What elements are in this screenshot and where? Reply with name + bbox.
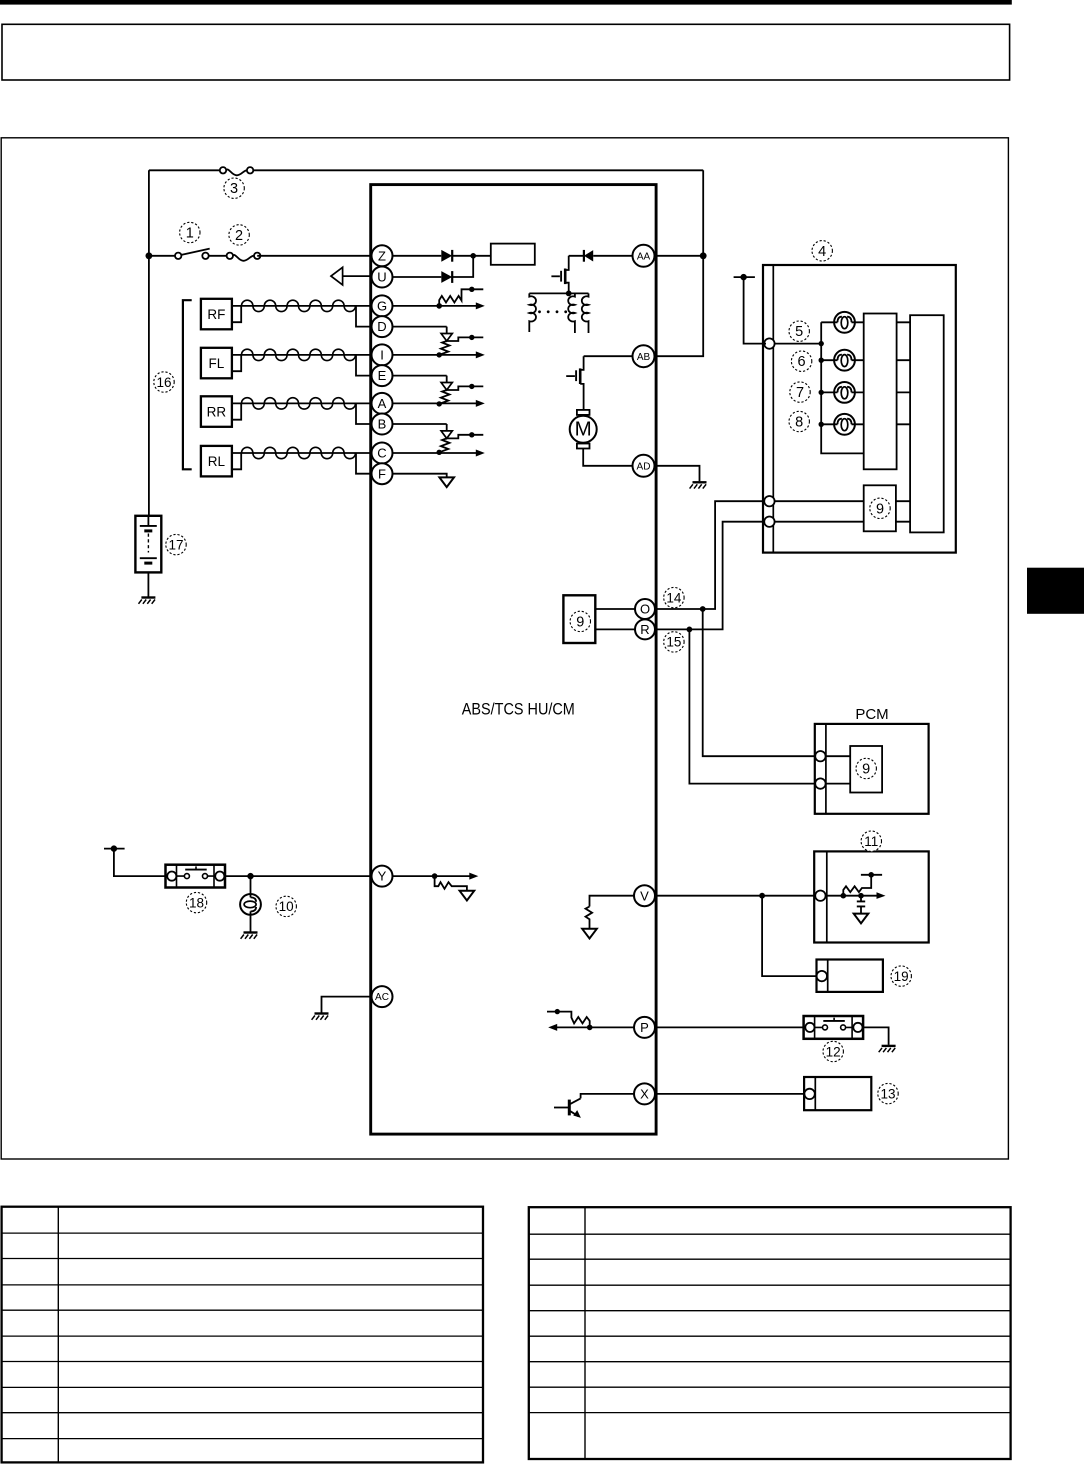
wire pin I internal with signal arrow [393, 351, 485, 358]
sensor 11 internal wire with arrow [826, 892, 886, 899]
junction Q1 source / solenoid rail [566, 291, 572, 297]
coupling dots [538, 310, 567, 313]
wire pin E to zener branch [393, 375, 447, 377]
svg-text:B: B [378, 417, 387, 432]
junction R / PCM branch [687, 627, 693, 633]
ground (12) [879, 1046, 896, 1052]
wires box 9 to micro [896, 501, 910, 522]
solenoid coil L2 [568, 293, 575, 333]
svg-text:U: U [377, 270, 386, 285]
label 1 [180, 222, 200, 242]
diode D3 to pin AA [569, 250, 634, 262]
wire split to pin E [356, 355, 372, 376]
junction P pull-up [587, 1025, 593, 1031]
label 14 [664, 587, 684, 607]
svg-text:A: A [378, 396, 387, 411]
wheel speed sensor RF [201, 299, 241, 330]
pin AB [633, 345, 655, 367]
pin Y [372, 866, 393, 887]
label 18 [186, 892, 206, 912]
svg-text:8: 8 [795, 415, 803, 431]
PCM pin circles [815, 751, 825, 761]
MOSFET Q2 [576, 356, 584, 410]
meter internal supply bus [775, 322, 864, 453]
wire battery to ground [147, 572, 149, 596]
pin P [634, 1017, 655, 1038]
wire motor to pin AD [583, 449, 633, 466]
wire pin V to sensor 11 [656, 895, 817, 897]
label 13 [878, 1083, 898, 1103]
label 4 [812, 241, 832, 261]
wheel speed sensor RL [201, 446, 241, 477]
meter pin circles [764, 338, 774, 348]
svg-text:FL: FL [209, 356, 225, 371]
svg-text:AC: AC [375, 992, 389, 1003]
ABS/TCS HU/CM control module box U? [371, 185, 656, 1135]
junction O / PCM branch [700, 606, 706, 612]
label 6 [791, 351, 811, 371]
warning lamp 5 [821, 312, 864, 333]
data link box 9 in meter [864, 485, 896, 531]
svg-text:RL: RL [208, 454, 226, 469]
buzzer lamp 10 [240, 894, 261, 915]
label 17 [166, 534, 186, 554]
MOSFET Q1 [561, 256, 569, 294]
connector 13 box [804, 1077, 871, 1110]
label 5 [789, 321, 809, 341]
wire V branch to connector 19 [762, 896, 817, 976]
svg-text:12: 12 [826, 1044, 841, 1059]
svg-text:E: E [378, 368, 387, 383]
svg-text:M: M [575, 417, 592, 440]
wheel speed sensor RR [201, 396, 241, 427]
off-page supply tap (18) [104, 845, 125, 851]
pin C [372, 443, 393, 464]
stoplight switch 18 [166, 865, 226, 888]
label 16 [154, 372, 174, 392]
svg-text:RR: RR [207, 405, 227, 420]
combination meter box 4 [763, 265, 956, 553]
wire pin Y to stop switch 18 [225, 875, 372, 877]
svg-text:R: R [640, 622, 649, 637]
junction Y pull-down [432, 873, 438, 879]
connector 19 pin circle [817, 971, 827, 981]
junction Z/U diodes [470, 253, 476, 259]
wire meter supply to off-page tap [744, 277, 766, 344]
svg-text:Y: Y [378, 869, 387, 884]
svg-text:X: X [640, 1087, 649, 1102]
right rail wire from top feed to pin AB [645, 170, 703, 356]
internal relay coil box [491, 244, 535, 265]
wire switch 1 to fuse 2 [209, 255, 227, 257]
wire fuse 3 to right rail [250, 169, 703, 171]
transistor Q3 (pin X driver) [554, 1098, 581, 1118]
label 10 [276, 896, 296, 916]
svg-text:V: V [640, 888, 649, 903]
label 11 [861, 831, 881, 851]
svg-text:10: 10 [279, 899, 294, 914]
zener + resistor B to C node [437, 424, 484, 455]
pin I [372, 344, 393, 365]
pin U [372, 267, 393, 288]
battery 17 [135, 516, 161, 573]
wires lamp driver to micro [897, 322, 911, 424]
wire pin B to zener branch [393, 423, 447, 425]
svg-text:AD: AD [637, 461, 651, 472]
wire pin O to combination meter [645, 501, 766, 609]
svg-text:15: 15 [666, 635, 681, 650]
svg-text:F: F [378, 466, 386, 481]
wire pin A internal with signal arrow [393, 400, 485, 407]
pin X [634, 1083, 655, 1104]
label 8 [789, 411, 809, 431]
label 9 (O/R box) [570, 611, 590, 631]
sensor 11 pin circle [815, 891, 825, 901]
svg-text:RF: RF [207, 307, 225, 322]
twisted pair RF [241, 305, 371, 307]
svg-text:C: C [377, 446, 386, 461]
label 9 (meter box) [870, 498, 890, 518]
svg-text:D: D [377, 319, 386, 334]
pin G [372, 295, 393, 316]
page top black bar [0, 0, 1012, 5]
pin O [635, 599, 655, 619]
pin Z [372, 245, 393, 266]
junction Y / buzzer branch [247, 873, 253, 879]
pin F [372, 463, 393, 484]
svg-text:O: O [640, 602, 650, 617]
off-page arrow at pin U [331, 267, 372, 285]
bottom-left legend table [2, 1207, 483, 1463]
svg-text:11: 11 [864, 834, 878, 849]
warning lamp 8 [819, 414, 864, 435]
junction bus / supply in [819, 341, 824, 346]
wire pin Z to diode [393, 255, 442, 257]
meter micro block [910, 315, 944, 532]
pump motor M [570, 410, 597, 449]
resistor P pull-up to supply tap [547, 1009, 590, 1028]
page edge index tab [1027, 568, 1084, 614]
data link box 9 at O/R [563, 595, 595, 643]
wire box 9 to pin R [595, 628, 635, 630]
svg-text:14: 14 [666, 590, 682, 605]
wire pin AD to ground [645, 466, 700, 482]
bottom-right legend table [529, 1207, 1011, 1459]
MOSFET Q1 gate lead [551, 275, 560, 277]
fuse 3 fusible link [220, 167, 254, 175]
junction 11 internal b [858, 893, 864, 899]
svg-text:ABS/TCS HU/CM: ABS/TCS HU/CM [462, 701, 575, 719]
pin AA [633, 245, 655, 267]
svg-text:I: I [380, 348, 384, 363]
wire battery+ top feed to fuse 3 [149, 169, 223, 171]
solenoid valve rail wire [529, 292, 588, 294]
wire switch 12 to ground [863, 1027, 889, 1045]
pin E [372, 365, 393, 386]
wire fuse 2 to pin Z [257, 255, 371, 257]
pin R [635, 619, 655, 639]
svg-text:7: 7 [796, 385, 804, 401]
wire pin F to signal ground [393, 474, 447, 478]
warning lamp 7 [819, 382, 864, 403]
resistor V internal [586, 907, 593, 929]
wire pin AC to ground [322, 997, 372, 1013]
PCM internal wires [826, 756, 851, 783]
G sensor 11 box [814, 851, 929, 942]
wire pin R to combination meter [645, 522, 766, 630]
wire box 9 to pin O [595, 608, 635, 610]
solenoid coil L1 [529, 293, 536, 332]
wire pin X to connector 13 [656, 1093, 807, 1095]
wire pin G internal with signal arrow [393, 302, 485, 309]
label 15 [664, 632, 684, 652]
ground (battery) [139, 598, 156, 604]
MOSFET Q2 gate lead [566, 375, 575, 377]
svg-text:AA: AA [637, 251, 651, 262]
wheel speed sensor FL [201, 348, 241, 379]
signal ground triangle (V) [582, 929, 597, 939]
connector 13 pin circle [804, 1089, 814, 1099]
diode D1 (pin Z feed) [441, 250, 452, 262]
signal ground triangle (11) [854, 914, 869, 924]
wire R branch to PCM [689, 629, 816, 783]
wire to buzzer 10 [250, 876, 252, 894]
TCS switch 12 [804, 1016, 864, 1039]
data link box 9 in PCM [850, 746, 882, 793]
svg-text:G: G [377, 299, 387, 314]
bracket for item 16 wheel sensors [183, 300, 192, 469]
wire pin D to zener branch [393, 326, 447, 328]
resistor G pull-up to supply tap [439, 287, 483, 306]
wire buzzer 10 to ground [250, 915, 252, 932]
wire to switch 1 [149, 255, 175, 257]
label 2 [229, 225, 249, 245]
svg-text:18: 18 [189, 895, 204, 910]
diode D2 (pin U feed) [441, 271, 452, 283]
wire diode to internal box [452, 255, 491, 257]
wires meter data pins to box 9 [775, 501, 864, 522]
svg-text:16: 16 [156, 375, 171, 390]
wire switch 18 to off-page tap [114, 849, 166, 877]
pin A [372, 393, 393, 414]
twisted pair RL [241, 452, 371, 454]
PCM box [815, 706, 929, 814]
svg-text:AB: AB [637, 352, 651, 363]
wire split to pin F [356, 453, 372, 474]
wire U diode up to Z node [452, 256, 473, 277]
label 3 [224, 178, 244, 198]
svg-text:19: 19 [894, 969, 909, 984]
junction AA / right rail [700, 252, 707, 259]
svg-text:3: 3 [230, 181, 238, 197]
wire pin P to switch 12 [656, 1026, 806, 1028]
label 7 [790, 382, 810, 402]
pin V [634, 885, 655, 906]
signal ground triangle (Y) [460, 891, 475, 901]
page title box (empty) [2, 24, 1010, 80]
svg-text:PCM: PCM [855, 706, 888, 723]
wire pin P internal with signal arrow [548, 1024, 633, 1031]
svg-text:5: 5 [795, 324, 803, 340]
resistor 11 to supply tap [843, 872, 882, 896]
signal ground triangle (pin F) [439, 477, 454, 487]
meter lamp driver block [864, 314, 897, 470]
twisted pair FL [241, 354, 371, 356]
warning lamp 6 [819, 350, 864, 371]
switch 1 (ignition switch, open) [175, 249, 210, 259]
wire Q2 drain to pin AB [584, 355, 634, 357]
off-page supply tap [734, 274, 755, 280]
svg-text:9: 9 [576, 614, 584, 630]
ground (10) [241, 933, 258, 939]
pin D [372, 316, 393, 337]
svg-text:P: P [640, 1020, 649, 1035]
svg-text:17: 17 [168, 537, 183, 552]
svg-text:6: 6 [798, 354, 806, 370]
junction battery rail / switch row [146, 252, 153, 259]
pin B [372, 414, 393, 435]
label 19 [891, 966, 911, 986]
ground (AD) [690, 482, 707, 488]
svg-text:2: 2 [235, 228, 243, 244]
junction G pull-up [436, 303, 442, 309]
wire left rail battery to switch row [148, 170, 150, 516]
wire split to pin B [356, 403, 372, 424]
junction 11 internal a [841, 893, 847, 899]
fuse 2 [227, 253, 261, 261]
wire pin X internal [581, 1094, 634, 1099]
svg-text:9: 9 [862, 762, 870, 778]
pin AC [372, 986, 393, 1007]
resistor Y to signal ground [435, 876, 467, 891]
wire pin AA to right rail [645, 255, 703, 257]
svg-text:9: 9 [876, 501, 884, 517]
twisted pair RR [241, 402, 371, 404]
solenoid coil L3 [582, 293, 589, 333]
svg-text:13: 13 [880, 1086, 895, 1101]
wire pin Y internal with signal arrow [393, 873, 479, 880]
zener + resistor D to I node [437, 327, 484, 358]
svg-text:1: 1 [186, 226, 194, 242]
capacitor 11 to signal ground [857, 896, 865, 914]
junction V / 19 branch [759, 893, 765, 899]
label 9 (PCM box) [856, 758, 876, 778]
pin AD [633, 455, 655, 477]
wire pin V internal [590, 896, 634, 907]
wire O branch to PCM [703, 609, 816, 756]
svg-text:4: 4 [818, 244, 826, 260]
wire pin U to diode [393, 276, 442, 278]
wire split to pin D [356, 306, 372, 327]
main diagram border [1, 138, 1008, 1159]
zener + resistor E to A node [437, 376, 484, 407]
svg-text:Z: Z [378, 248, 386, 263]
ground (AC) [312, 1014, 329, 1020]
label 12 [823, 1041, 843, 1061]
connector 19 box [817, 960, 883, 992]
wire pin C internal with signal arrow [393, 450, 485, 457]
